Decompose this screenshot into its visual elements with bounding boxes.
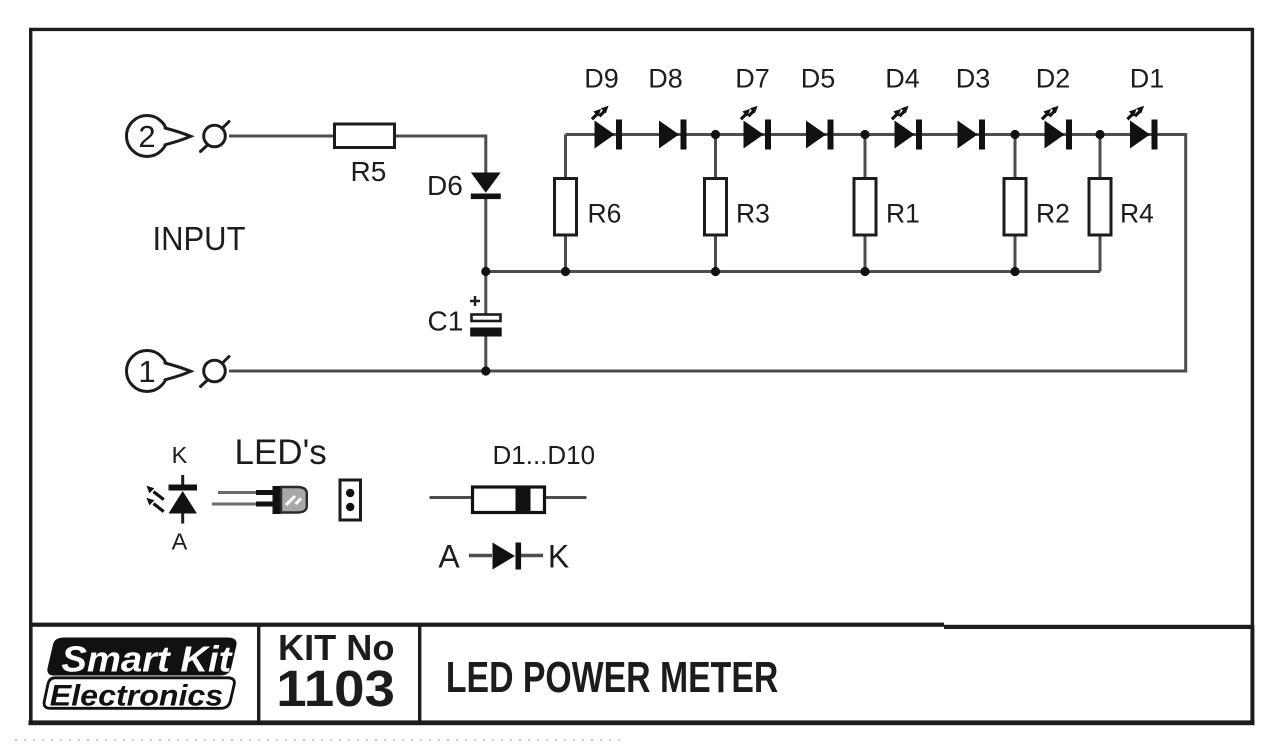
R4 top lead	[1099, 135, 1102, 178]
svg-text:Electronics: Electronics	[50, 680, 223, 713]
capacitor C1	[470, 296, 502, 337]
resistor R5	[335, 124, 395, 148]
svg-text:R5: R5	[351, 156, 387, 187]
svg-text:D9: D9	[584, 64, 619, 94]
junction node chain/R3	[711, 130, 720, 139]
svg-text:D5: D5	[801, 64, 836, 94]
diode package right lead	[546, 496, 587, 499]
title bar divider 2	[418, 626, 421, 721]
diode D8	[659, 120, 687, 150]
Smart Kit logo black block	[47, 638, 236, 676]
junction node rail/R6	[561, 267, 570, 276]
R6 bottom lead	[564, 236, 567, 272]
resistor R6	[555, 179, 577, 236]
svg-text:Smart Kit: Smart Kit	[61, 639, 233, 680]
title bar bottom border	[29, 720, 1255, 725]
svg-text:2: 2	[138, 119, 155, 154]
jumper header	[340, 480, 361, 520]
LED D7	[741, 106, 771, 150]
svg-text:LED's: LED's	[235, 433, 327, 472]
svg-text:INPUT: INPUT	[153, 221, 246, 258]
resistor R1	[854, 179, 876, 236]
wire rail to C1 top	[484, 272, 487, 315]
svg-text:R1: R1	[886, 199, 920, 229]
junction node rail/R2	[1010, 267, 1019, 276]
title bar right border	[1250, 625, 1254, 723]
LED D4	[892, 106, 922, 150]
R1 top lead	[864, 135, 867, 178]
physical LED body	[281, 487, 307, 513]
svg-text:R2: R2	[1036, 199, 1070, 229]
physical LED flange	[273, 486, 282, 514]
junction node rail/R3	[711, 267, 720, 276]
R2 top lead	[1014, 135, 1017, 178]
junction node ground/C1	[481, 366, 490, 375]
physical LED drawing: leads	[218, 491, 258, 494]
outer schematic border frame	[31, 29, 1253, 625]
resistor R3	[705, 179, 727, 236]
wire R5 to D6 corner	[396, 136, 486, 173]
title bar left border	[29, 625, 33, 723]
svg-text:K: K	[172, 442, 188, 468]
connector socket 2	[201, 122, 230, 152]
junction node rail/D6	[481, 267, 490, 276]
svg-text:D2: D2	[1036, 64, 1071, 94]
Electronics box	[44, 678, 234, 709]
junction node chain/R4	[1095, 130, 1104, 139]
bottom rail from terminal 1 up right side to LED chain	[229, 135, 1186, 372]
R1 bottom lead	[864, 236, 867, 272]
diode D6	[471, 173, 501, 200]
resistor R2	[1004, 179, 1026, 236]
svg-text:R4: R4	[1120, 199, 1154, 229]
R2 bottom lead	[1014, 236, 1017, 272]
resistor R4	[1089, 179, 1111, 236]
svg-text:C1: C1	[428, 306, 464, 337]
connector socket 1	[201, 357, 230, 387]
R3 bottom lead	[714, 236, 717, 272]
title bar: stepped top line	[29, 623, 944, 627]
svg-text:A: A	[172, 529, 188, 555]
diode D3	[958, 120, 986, 150]
LED chain wire	[566, 133, 1158, 136]
physical LED lead ends	[256, 490, 274, 495]
terminal 2 wire	[229, 135, 333, 138]
scan speckle row	[15, 739, 620, 741]
diode package left lead	[430, 496, 472, 499]
legend LED symbol vertical	[169, 475, 198, 524]
junction node chain/R2	[1010, 130, 1019, 139]
svg-text:D8: D8	[648, 64, 683, 94]
svg-text:R6: R6	[588, 199, 622, 229]
legend LED light arrows	[146, 486, 163, 512]
LED D2	[1042, 106, 1072, 150]
R6 top lead	[564, 135, 567, 178]
svg-text:LED POWER METER: LED POWER METER	[446, 653, 778, 702]
R3 top lead	[714, 135, 717, 178]
diode D5	[806, 120, 834, 150]
diode package body	[473, 487, 545, 513]
R4 bottom lead	[1099, 236, 1102, 272]
wire D6 to + rail	[484, 197, 487, 272]
svg-text:D6: D6	[427, 170, 463, 201]
junction node rail/R1	[860, 267, 869, 276]
diode package cathode band	[516, 486, 531, 514]
svg-text:D4: D4	[885, 64, 920, 94]
svg-text:D1: D1	[1130, 64, 1165, 94]
svg-text:A: A	[438, 539, 460, 575]
svg-text:R3: R3	[736, 199, 770, 229]
LED D1	[1127, 106, 1157, 150]
title bar divider 1	[257, 626, 260, 721]
svg-text:D3: D3	[956, 64, 991, 94]
terminal bubble 1	[127, 351, 191, 392]
legend diode symbol	[493, 543, 522, 570]
+ rail	[486, 270, 1100, 273]
svg-text:D1...D10: D1...D10	[493, 440, 596, 470]
legend diode wire right	[521, 554, 543, 557]
svg-text:K: K	[548, 539, 569, 575]
LED D9	[592, 106, 622, 150]
wire C1 bottom to ground rail	[484, 336, 487, 371]
svg-text:1103: 1103	[276, 660, 395, 717]
svg-text:1: 1	[138, 354, 155, 389]
terminal bubble 2	[127, 116, 191, 157]
svg-text:D7: D7	[735, 64, 770, 94]
legend diode wire left	[469, 554, 492, 557]
junction node chain/R1	[860, 130, 869, 139]
